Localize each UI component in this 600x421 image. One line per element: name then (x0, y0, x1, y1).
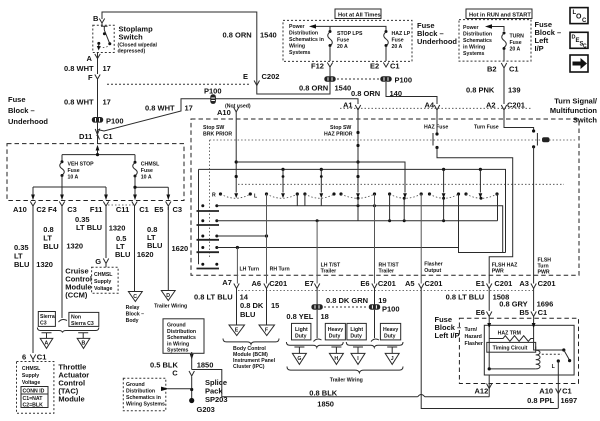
connector triangle B (77, 338, 90, 348)
svg-text:E1: E1 (476, 279, 485, 288)
svg-text:139: 139 (508, 86, 521, 95)
svg-text:HAZ Fuse: HAZ Fuse (424, 125, 448, 131)
stub to triangle B (78, 333, 88, 339)
svg-text:Switch: Switch (119, 33, 144, 42)
svg-text:Hazard: Hazard (465, 334, 482, 340)
E6 wire into module (487, 323, 491, 329)
left frame feed of hazard contacts (198, 169, 200, 264)
svg-text:C202: C202 (262, 72, 280, 81)
svg-text:C: C (133, 294, 137, 300)
svg-text:Hot in RUN and START: Hot in RUN and START (469, 13, 531, 19)
svg-text:Light: Light (350, 327, 363, 333)
brace trailer group 1 (286, 342, 343, 347)
wire A3 to flasher B5 0.8 GRY 1696 (533, 288, 535, 311)
flasher inner module box (484, 325, 574, 375)
relay coil (536, 350, 540, 369)
svg-text:Distribution: Distribution (463, 32, 492, 38)
svg-text:1320: 1320 (36, 260, 53, 269)
svg-text:A: A (87, 54, 93, 63)
cancel cam on linkage (542, 137, 550, 142)
Non Sierra C3 box (69, 312, 99, 326)
stoplamp switch wiper arrow (97, 42, 100, 45)
svg-text:1850: 1850 (197, 361, 214, 370)
wire C2F4 to Sierra boxes (61, 207, 63, 318)
connector P100 on E7 wire (311, 304, 322, 309)
svg-text:Heavy: Heavy (328, 327, 343, 333)
svg-text:Systems: Systems (289, 50, 310, 56)
svg-text:Relay: Relay (126, 305, 140, 311)
connector triangle C (128, 292, 142, 302)
fuse block underhood box (left) (7, 144, 184, 201)
relay linkage dashed (542, 353, 562, 355)
svg-text:C2=BLK: C2=BLK (23, 403, 44, 409)
svg-text:P100: P100 (382, 305, 400, 314)
connector triangle G (292, 353, 306, 364)
svg-text:Block –: Block – (126, 312, 145, 318)
svg-text:CHMSL: CHMSL (94, 272, 113, 278)
B5 wire into module (532, 323, 536, 329)
pole6 center drop (443, 198, 445, 221)
Timing Circuit box (487, 342, 536, 352)
stub to triangle A (42, 333, 52, 339)
brace under BCM triangles (223, 339, 279, 345)
svg-text:Multifunction: Multifunction (550, 106, 597, 115)
svg-text:H: H (334, 356, 338, 362)
frame link (459, 248, 506, 253)
pole5 L drop (389, 194, 391, 221)
svg-text:0.8 BLK: 0.8 BLK (309, 389, 338, 398)
svg-text:10 A: 10 A (68, 175, 79, 181)
svg-text:18: 18 (321, 312, 329, 321)
svg-text:I/P: I/P (535, 44, 544, 53)
svg-text:Trailer: Trailer (379, 269, 395, 275)
svg-text:1697: 1697 (561, 396, 578, 405)
pole3 arc (303, 192, 306, 195)
svg-text:C201: C201 (425, 279, 443, 288)
output A12 (488, 375, 490, 397)
svg-text:A1: A1 (343, 101, 353, 110)
bracket under Sierra boxes (37, 328, 98, 333)
Heavy Duty box 2 (325, 323, 345, 340)
svg-text:C1=NAT: C1=NAT (23, 396, 44, 402)
svg-text:RH Turn: RH Turn (270, 267, 290, 273)
exit arrows through box edge (31, 195, 35, 201)
svg-text:17: 17 (103, 64, 111, 73)
svg-text:G: G (297, 356, 301, 362)
bus L3 (217, 235, 267, 237)
connector triangle J (385, 353, 399, 364)
wire C1 to triangle C (134, 207, 136, 291)
svg-text:0.8 LT BLU: 0.8 LT BLU (446, 293, 485, 302)
svg-text:A10: A10 (539, 387, 553, 396)
svg-text:E: E (235, 328, 239, 334)
svg-text:Duty: Duty (329, 334, 341, 340)
svg-text:A3: A3 (519, 279, 529, 288)
output wire A5 (420, 194, 422, 284)
svg-text:in Wiring: in Wiring (463, 45, 485, 51)
svg-text:J: J (391, 356, 394, 362)
wire A1 to pole4 wiper (357, 110, 359, 193)
connector id values box (21, 394, 48, 408)
svg-text:17: 17 (103, 98, 111, 107)
svg-text:Switch: Switch (573, 116, 598, 125)
svg-text:C3: C3 (40, 321, 47, 327)
label: Hot at All Times (335, 9, 381, 19)
stub to triangle H (331, 347, 341, 353)
wire E6 to trailer (374, 288, 376, 305)
svg-text:Sierra: Sierra (40, 314, 55, 320)
hazard linkage contact row 3 (201, 235, 204, 238)
feed split to fuses (62, 154, 135, 156)
svg-text:A10: A10 (217, 108, 231, 117)
svg-text:HAZ PRIOR: HAZ PRIOR (324, 132, 353, 138)
CHMSL fuse output bus (135, 176, 168, 195)
svg-text:Module: Module (58, 395, 84, 404)
wire to D11 (97, 123, 99, 144)
svg-text:Trailer Wiring: Trailer Wiring (154, 304, 187, 310)
svg-text:Distribution: Distribution (289, 31, 318, 37)
stub to triangle J (387, 347, 397, 353)
svg-text:F: F (265, 328, 268, 334)
svg-text:A: A (45, 341, 49, 347)
pole2 wiper (282, 169, 284, 192)
svg-text:C1: C1 (390, 62, 400, 71)
bus L1 (217, 206, 503, 253)
svg-text:Hot at All Times: Hot at All Times (338, 13, 381, 19)
dashed P100 line (337, 78, 379, 80)
svg-text:C1: C1 (37, 353, 47, 362)
stoplamp switch fixed contact (101, 26, 110, 44)
svg-text:Ground: Ground (167, 323, 186, 329)
svg-text:C201: C201 (269, 279, 287, 288)
svg-text:Fuse: Fuse (510, 40, 522, 46)
svg-text:F11: F11 (90, 205, 103, 214)
svg-text:B: B (93, 14, 99, 23)
Sierra C3 box (38, 312, 55, 327)
svg-text:Ground: Ground (126, 382, 145, 388)
connector triangle F (259, 325, 275, 336)
svg-text:Distribution: Distribution (126, 389, 155, 395)
svg-text:E5: E5 (154, 205, 163, 214)
svg-text:C: C (172, 369, 178, 378)
connector triangle I (351, 353, 365, 364)
pole3 wiper (320, 169, 322, 192)
arrow from box2 to splice (161, 387, 169, 391)
wire C3 to triangle D (167, 207, 169, 290)
svg-text:0.8 DK: 0.8 DK (240, 301, 264, 310)
ground wire 0.8 BLK 1850 (192, 370, 490, 397)
svg-text:1620: 1620 (172, 244, 189, 253)
svg-text:C201: C201 (538, 279, 556, 288)
svg-text:VEH STOP: VEH STOP (68, 162, 95, 168)
wire F11 to CCM G (105, 207, 107, 258)
svg-text:Output: Output (424, 268, 441, 274)
svg-text:Body: Body (126, 318, 139, 324)
svg-text:Turn/: Turn/ (465, 327, 478, 333)
ground distribution reference box 2 (dashed) (123, 378, 166, 411)
svg-text:Stop SW: Stop SW (203, 125, 224, 131)
svg-text:Wiring Systems: Wiring Systems (126, 402, 165, 408)
svg-text:A6: A6 (252, 279, 262, 288)
svg-text:D: D (166, 293, 170, 299)
svg-text:B5: B5 (519, 308, 529, 317)
stoplamp switch (dashed box) (93, 25, 114, 52)
hazard linkage contact row 1 (201, 204, 204, 207)
splice wire down to G203 (191, 377, 193, 402)
svg-text:BLU: BLU (115, 250, 130, 259)
svg-text:Voltage: Voltage (94, 286, 112, 292)
mechanical linkage dotted lines (210, 139, 577, 141)
svg-text:C: C (583, 44, 587, 50)
svg-text:20 A: 20 A (510, 47, 521, 53)
output wire A6 (266, 194, 268, 284)
svg-text:C2 F4: C2 F4 (36, 205, 57, 214)
svg-text:P100: P100 (395, 76, 413, 85)
svg-text:Duty: Duty (384, 334, 396, 340)
svg-text:1540: 1540 (335, 84, 352, 93)
svg-text:C1: C1 (103, 132, 113, 141)
continuation squiggle (59, 320, 68, 322)
svg-text:F: F (88, 73, 93, 82)
svg-text:Schematics: Schematics (463, 38, 492, 44)
svg-text:20 A: 20 A (337, 44, 348, 50)
svg-text:6: 6 (22, 353, 26, 362)
svg-text:0.8 PPL: 0.8 PPL (527, 396, 555, 405)
dashed connector line F to E C202 (107, 83, 251, 85)
svg-text:D11: D11 (79, 132, 92, 141)
svg-text:Duty: Duty (350, 334, 362, 340)
pole3 L drop (304, 194, 306, 206)
stub to triangle G (294, 347, 304, 353)
svg-text:0.8 ORN: 0.8 ORN (223, 31, 252, 40)
svg-text:1320: 1320 (109, 224, 126, 233)
CHMSL Supply Voltage box (CCM) (92, 267, 119, 293)
svg-text:C3: C3 (67, 205, 77, 214)
wire 0.8 PNK 139 (503, 68, 505, 104)
bottom pin chevrons of fuse block (30, 202, 35, 211)
svg-text:A2: A2 (486, 101, 496, 110)
pole7 R drop to bus L2 corner (497, 194, 499, 221)
svg-text:B2: B2 (487, 65, 497, 74)
pole1 arc (219, 192, 222, 195)
hazard linkage contact row 2 (201, 219, 204, 222)
fuse HAZ LP 20A (385, 30, 388, 33)
svg-text:Block –: Block – (8, 106, 35, 115)
svg-text:BLU: BLU (14, 260, 29, 269)
svg-text:Stop SW: Stop SW (330, 125, 351, 131)
connector triangle H (329, 353, 343, 364)
svg-text:Systems: Systems (463, 51, 484, 57)
svg-text:Fuse: Fuse (337, 38, 349, 44)
svg-text:0.8 WHT: 0.8 WHT (64, 64, 94, 73)
wire A10 to pole1 wiper (235, 112, 237, 193)
svg-text:LH Turn: LH Turn (240, 267, 260, 273)
svg-text:Supply: Supply (94, 279, 111, 285)
svg-text:Flasher: Flasher (424, 262, 442, 268)
fuse block left IP (top right dashed box) (459, 20, 531, 62)
svg-text:A10: A10 (13, 205, 27, 214)
svg-text:HAZ LP: HAZ LP (392, 31, 411, 37)
svg-text:0.8 LT BLU: 0.8 LT BLU (194, 293, 233, 302)
output wire A7 (236, 248, 238, 284)
svg-text:Light: Light (295, 327, 308, 333)
svg-text:0.8 YEL: 0.8 YEL (286, 312, 313, 321)
svg-text:Turn Fuse: Turn Fuse (474, 125, 499, 131)
Light Duty box 3 (347, 323, 366, 340)
pole4 arc (339, 192, 342, 195)
svg-text:0.8 ORN: 0.8 ORN (299, 84, 328, 93)
svg-text:(CCM): (CCM) (65, 291, 88, 300)
svg-text:140: 140 (390, 89, 403, 98)
pole5 center drop (403, 198, 405, 221)
svg-text:C1: C1 (538, 308, 548, 317)
bus L2 (217, 220, 498, 222)
connector P100 on E2 wire (380, 76, 391, 82)
wire E2 to A4 0.8 ORN 140 (386, 82, 437, 104)
svg-text:0.8 WHT: 0.8 WHT (145, 104, 175, 113)
wire: battery feed ORN from fuse F12 up over to stoplamp switch B (102, 12, 330, 94)
svg-text:Flasher: Flasher (465, 341, 483, 347)
svg-text:G203: G203 (197, 405, 215, 414)
svg-text:A5: A5 (405, 279, 415, 288)
connector triangle E (229, 325, 245, 336)
svg-text:B: B (82, 341, 86, 347)
corner icon arrow (570, 55, 588, 72)
svg-text:Heavy: Heavy (383, 327, 398, 333)
svg-text:0.8 ORN: 0.8 ORN (351, 89, 380, 98)
svg-text:Schematics: Schematics (167, 335, 196, 341)
ground distribution reference box (solid) (163, 319, 204, 354)
pole6 wiper (443, 169, 445, 192)
dotted connector segment under pins (108, 204, 133, 206)
fuse CHMSL 10A (134, 161, 137, 164)
stub to triangle I (353, 347, 363, 353)
hazard linkage contact row 4 (201, 246, 204, 249)
svg-text:Timing Circuit: Timing Circuit (493, 346, 528, 352)
svg-text:Underhood: Underhood (8, 117, 48, 126)
VEH STOP fuse output bus (33, 176, 106, 195)
turn feed bus (bus2) (199, 169, 506, 252)
stop feed bus (bus1) (236, 162, 405, 193)
svg-text:F12: F12 (311, 62, 324, 71)
svg-text:Sierra C3: Sierra C3 (71, 321, 94, 327)
svg-text:E7: E7 (305, 279, 314, 288)
big brace trailer wiring (287, 367, 403, 373)
power distribution reference arrow (316, 26, 386, 30)
hazard switch contact (HAZ fuse column) (436, 110, 438, 134)
svg-text:Duty: Duty (295, 334, 307, 340)
corner icon LOC (570, 8, 588, 24)
svg-text:A7: A7 (222, 278, 232, 287)
svg-text:1320: 1320 (66, 242, 83, 251)
svg-text:E2: E2 (370, 62, 379, 71)
label: Hot in RUN and START (466, 9, 532, 19)
svg-text:HAZ TRM: HAZ TRM (498, 331, 521, 337)
svg-text:1540: 1540 (260, 31, 277, 40)
svg-text:PWR: PWR (492, 269, 504, 275)
fuse block underhood (top dashed box) (283, 20, 412, 61)
Heavy Duty box 4 (380, 323, 400, 340)
svg-text:Left I/P: Left I/P (435, 331, 460, 340)
svg-text:15: 15 (271, 301, 279, 310)
svg-text:Cluster (IPC): Cluster (IPC) (233, 364, 265, 370)
pole2 arc (265, 192, 268, 195)
wire A10 to TAC (32, 207, 34, 353)
svg-text:C1: C1 (139, 205, 149, 214)
wire HAZ feed to flasher E1 (437, 148, 513, 284)
svg-text:STOP LPS: STOP LPS (337, 31, 363, 37)
corner icon DESC (570, 32, 588, 49)
svg-text:Trailer: Trailer (321, 269, 337, 275)
svg-text:0.8 DK GRN: 0.8 DK GRN (326, 296, 368, 305)
svg-text:C11: C11 (116, 205, 129, 214)
svg-text:PWR: PWR (538, 270, 550, 276)
output wire E7 (316, 221, 318, 284)
relay switch (562, 348, 565, 351)
pole7 wiper (479, 169, 481, 192)
svg-text:Voltage: Voltage (22, 380, 40, 386)
wire A6 to BCM triangle F (266, 288, 268, 325)
B5 feed to relay contact (534, 339, 564, 351)
svg-text:P100: P100 (106, 117, 124, 126)
svg-text:C3: C3 (173, 205, 183, 214)
entry arrow at D11 (96, 145, 100, 151)
svg-text:Systems: Systems (167, 348, 188, 354)
svg-text:G: G (95, 257, 101, 266)
connector P100 on stoplamp wire (92, 117, 103, 123)
svg-text:Distribution: Distribution (167, 329, 196, 335)
svg-text:Fuse: Fuse (392, 38, 404, 44)
turn switch contact (Turn fuse column) (504, 110, 534, 131)
svg-text:C1: C1 (509, 65, 519, 74)
svg-text:E6: E6 (476, 308, 485, 317)
pole4 center drop (357, 198, 359, 221)
dashed P100 line (trailer) (324, 306, 367, 308)
svg-text:in Wiring: in Wiring (167, 341, 189, 347)
Light Duty box 1 (292, 323, 311, 340)
svg-text:BLU: BLU (43, 242, 58, 251)
flasher outer dashed box (459, 318, 578, 383)
turn signal / multifunction switch box (191, 119, 579, 275)
pole6 arc (428, 192, 431, 195)
hazard linkage contact row 5 (201, 263, 204, 266)
brace trailer group 2 (346, 342, 403, 347)
svg-text:C: C (582, 18, 587, 24)
svg-text:20 A: 20 A (392, 44, 403, 50)
svg-text:BRK PRIOR: BRK PRIOR (203, 132, 232, 138)
coil to module bottom-left (489, 368, 536, 370)
svg-text:Underhood: Underhood (417, 37, 457, 46)
fuse TURN 20A (503, 32, 506, 35)
svg-text:E: E (243, 72, 248, 81)
svg-text:Power: Power (463, 25, 479, 31)
svg-text:A12: A12 (475, 387, 489, 396)
svg-text:CHMSL: CHMSL (22, 366, 41, 372)
svg-text:Power: Power (289, 24, 305, 30)
svg-text:Schematics in: Schematics in (126, 395, 161, 401)
wire Turn feed to A3 (533, 147, 535, 284)
output wire E6 (374, 194, 376, 284)
connector P100 on F12 wire (324, 76, 335, 82)
power distribution reference arrow (right) (492, 27, 504, 32)
svg-text:E6: E6 (360, 279, 369, 288)
hop over A5 wire (418, 395, 425, 397)
CONN ID box (21, 387, 48, 395)
arc center contacts (357, 197, 360, 200)
wire branch to A1 via P100 (98, 99, 359, 131)
svg-text:C1: C1 (562, 387, 572, 396)
svg-text:CHMSL: CHMSL (141, 162, 160, 168)
